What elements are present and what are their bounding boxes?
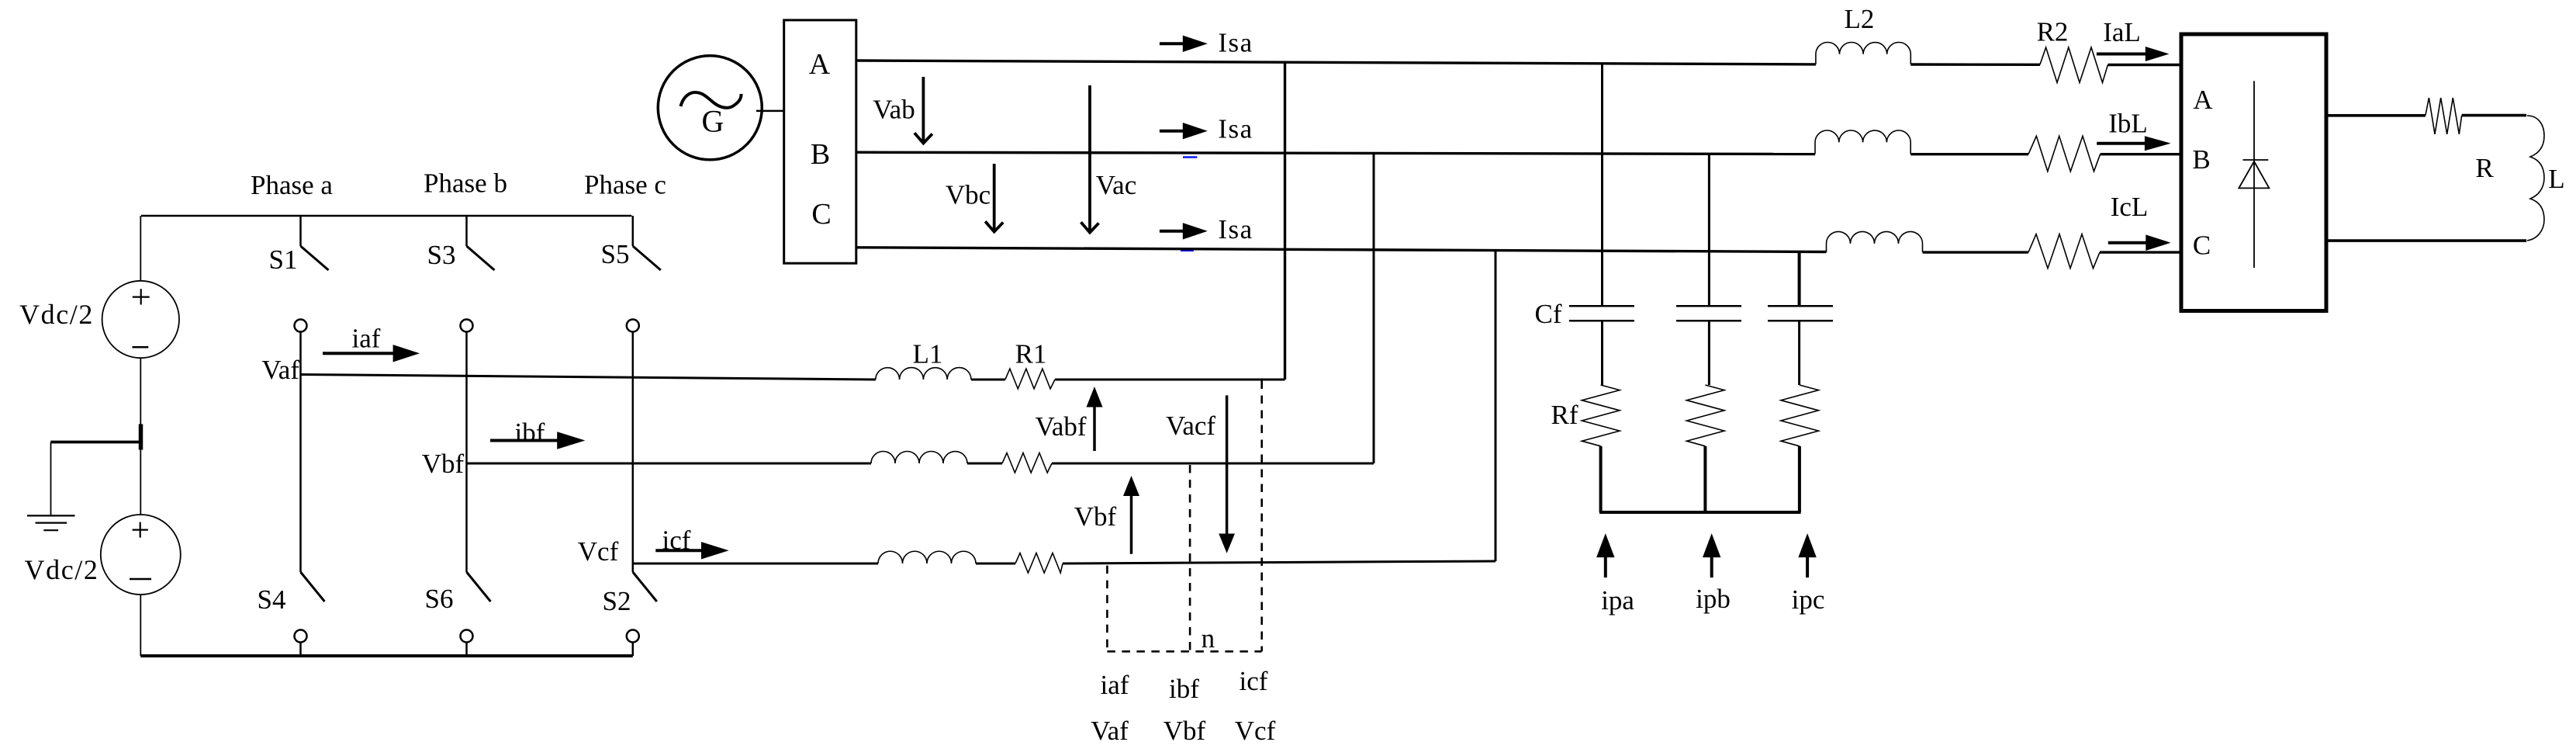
svg-text:R2: R2: [2037, 17, 2069, 47]
svg-text:Isa: Isa: [1218, 28, 1253, 58]
svg-text:ibf: ibf: [515, 418, 545, 448]
svg-text:IbL: IbL: [2108, 109, 2148, 139]
svg-text:iaf: iaf: [1101, 670, 1129, 700]
svg-text:S3: S3: [427, 240, 456, 270]
svg-text:Phase b: Phase b: [424, 168, 507, 199]
svg-text:n: n: [1202, 623, 1215, 654]
svg-text:Isa: Isa: [1218, 114, 1253, 144]
svg-text:A: A: [2193, 85, 2213, 115]
svg-text:Vac: Vac: [1096, 170, 1136, 200]
svg-text:Vab: Vab: [873, 95, 915, 125]
svg-text:icf: icf: [1240, 666, 1268, 696]
svg-text:Isa: Isa: [1218, 214, 1253, 244]
svg-text:Rf: Rf: [1551, 400, 1578, 430]
svg-text:L: L: [2548, 164, 2564, 194]
svg-text:S4: S4: [258, 584, 286, 615]
svg-text:G: G: [702, 103, 724, 138]
svg-text:ipb: ipb: [1696, 584, 1731, 614]
svg-text:B: B: [811, 138, 830, 171]
svg-text:B: B: [2192, 144, 2210, 175]
svg-text:S1: S1: [269, 244, 298, 275]
svg-text:Vbf: Vbf: [1074, 501, 1117, 532]
svg-text:ipa: ipa: [1601, 585, 1634, 615]
svg-text:Vbf: Vbf: [1164, 716, 1206, 746]
svg-text:Phase c: Phase c: [584, 170, 666, 200]
svg-text:L2: L2: [1845, 4, 1875, 34]
svg-text:Vacf: Vacf: [1166, 411, 1215, 441]
svg-text:A: A: [809, 48, 831, 81]
svg-text:Vaf: Vaf: [1091, 716, 1129, 746]
svg-text:Cf: Cf: [1535, 299, 1562, 329]
svg-text:R: R: [2475, 153, 2494, 183]
svg-text:Vbc: Vbc: [946, 180, 991, 210]
svg-text:ipc: ipc: [1792, 584, 1825, 615]
svg-text:Vcf: Vcf: [578, 536, 619, 567]
svg-text:Phase a: Phase a: [251, 170, 333, 200]
svg-text:ibf: ibf: [1169, 674, 1199, 704]
svg-text:C: C: [811, 198, 831, 231]
svg-text:C: C: [2193, 231, 2211, 261]
svg-text:R1: R1: [1015, 339, 1047, 369]
svg-text:S2: S2: [603, 586, 631, 616]
svg-text:L1: L1: [913, 339, 943, 369]
svg-text:IaL: IaL: [2103, 17, 2141, 47]
svg-text:Vbf: Vbf: [422, 449, 465, 479]
svg-text:S5: S5: [601, 239, 630, 269]
svg-text:iaf: iaf: [352, 324, 381, 354]
svg-text:Vabf: Vabf: [1035, 411, 1086, 442]
svg-text:Vcf: Vcf: [1235, 716, 1276, 746]
svg-text:Vdc/2: Vdc/2: [19, 299, 94, 330]
svg-text:S6: S6: [425, 584, 454, 614]
svg-text:Vdc/2: Vdc/2: [25, 554, 99, 585]
svg-text:IcL: IcL: [2111, 192, 2149, 222]
svg-text:Vaf: Vaf: [261, 355, 299, 385]
